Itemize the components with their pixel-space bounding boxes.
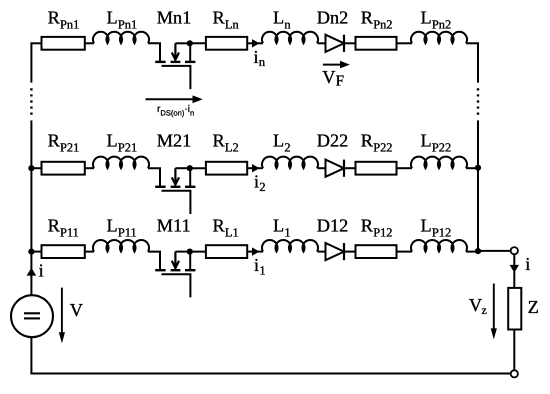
wire RPn1 to LPn1: [85, 42, 94, 44]
svg-text:2: 2: [284, 140, 290, 154]
resistor RP12: [356, 245, 397, 258]
svg-text:L: L: [273, 216, 284, 236]
current arrow in: [252, 39, 260, 47]
node right rail row 2 junction: [475, 165, 481, 171]
svg-text:L: L: [421, 8, 432, 28]
wire RP21 to LP21: [85, 167, 94, 169]
impedance Z: [508, 288, 521, 330]
wire LP22 to right rail: [466, 167, 479, 169]
svg-text:i: i: [39, 260, 44, 280]
node drain/source junction of Mn1: [187, 40, 193, 46]
wire L2 to D22: [318, 167, 326, 169]
wire row n: rail to RPn1: [31, 42, 41, 44]
label LP11: [107, 216, 137, 240]
svg-text:i: i: [254, 255, 259, 275]
label in: [254, 47, 266, 69]
label LP12: [421, 216, 452, 240]
resistor RP22: [356, 162, 397, 175]
svg-text:L2: L2: [225, 140, 239, 154]
svg-text:i: i: [254, 47, 259, 67]
svg-text:L: L: [107, 216, 118, 236]
inductor L1: [262, 240, 318, 252]
svg-text:i: i: [254, 171, 259, 191]
resistor RL2: [206, 162, 247, 175]
resistor RLn: [206, 37, 247, 50]
svg-text:n: n: [284, 17, 290, 31]
wire M11 to RL1: [190, 251, 206, 253]
label RL2: [213, 131, 239, 155]
wire M21 to RL2: [190, 167, 206, 169]
wire LP12 to right rail: [466, 251, 479, 253]
current arrow i2: [252, 164, 260, 172]
wire RL2 to L2 with current arrow: [247, 167, 263, 169]
wire RLn to Ln with current arrow: [247, 42, 263, 44]
label Ln: [273, 8, 291, 32]
label RPn1: [48, 8, 80, 32]
svg-text:R: R: [213, 8, 226, 28]
svg-text:P11: P11: [60, 225, 79, 239]
arrow VZ (load voltage, pointing down): [491, 284, 497, 340]
inductor LPn2: [411, 32, 467, 44]
wire Dn2 to RPn2: [344, 42, 356, 44]
label LP22: [421, 131, 452, 155]
wire terminal to load Z: [513, 254, 515, 288]
arrow VF (diode forward voltage): [323, 61, 350, 69]
wire RP12 to LP12: [397, 251, 413, 253]
terminal output top: [511, 247, 518, 254]
wire RPn2 to LPn2: [397, 42, 413, 44]
svg-text:i: i: [525, 254, 530, 274]
inductor LP12: [411, 240, 467, 252]
svg-text:L: L: [273, 8, 284, 28]
label i2: [254, 171, 266, 193]
svg-text:n: n: [259, 55, 265, 69]
wire D12 to RP12: [344, 251, 356, 253]
wire right rail upper segment: [477, 42, 479, 82]
svg-text:Z: Z: [528, 297, 539, 317]
svg-text:L: L: [107, 8, 118, 28]
inductor L2: [262, 157, 318, 169]
wire left rail upper segment: [30, 42, 32, 82]
label LPn2: [421, 8, 452, 32]
svg-text:P22: P22: [432, 140, 451, 154]
svg-text:P12: P12: [432, 225, 451, 239]
svg-text:Pn1: Pn1: [60, 17, 79, 31]
svg-text:L: L: [421, 131, 432, 151]
diode D12: [326, 243, 345, 260]
wire bottom return: [31, 337, 510, 374]
svg-text:L: L: [273, 131, 284, 151]
wire Mn1 to RLn: [190, 42, 206, 44]
svg-text:R: R: [48, 216, 61, 236]
transistor M11: [148, 252, 195, 298]
current arrow i (source branch, pointing up): [27, 268, 37, 276]
svg-text:Dn2: Dn2: [317, 8, 348, 28]
wire RL1 to L1 with current arrow: [247, 251, 263, 253]
svg-text:L1: L1: [225, 225, 239, 239]
wire right rail dotted continuation: [477, 88, 479, 115]
svg-text:R: R: [361, 8, 374, 28]
svg-text:P22: P22: [373, 140, 392, 154]
wire load Z to bottom terminal: [513, 330, 515, 371]
svg-text:V: V: [70, 300, 83, 320]
svg-text:L: L: [107, 131, 118, 151]
wire left rail lower segment: [30, 120, 32, 295]
svg-text:z: z: [482, 303, 487, 317]
label RP21: [48, 131, 80, 155]
wire D22 to RP22: [344, 167, 356, 169]
svg-text:D22: D22: [317, 131, 348, 151]
arrow V (source voltage, pointing down): [59, 288, 65, 344]
label L2: [273, 131, 291, 155]
voltage source V (DC symbol): [11, 295, 53, 337]
wire LPn2 to right rail: [466, 42, 479, 44]
svg-text:R: R: [48, 8, 61, 28]
transistor Mn1: [148, 43, 195, 89]
svg-text:P21: P21: [118, 140, 137, 154]
inductor LP11: [93, 240, 149, 252]
svg-text:V: V: [469, 295, 482, 315]
svg-text:F: F: [336, 73, 344, 90]
svg-text:L: L: [421, 216, 432, 236]
resistor RPn1: [42, 37, 85, 50]
inductor LPn1: [93, 32, 149, 44]
wire RP11 to LP11: [85, 251, 94, 253]
label VF: [322, 67, 344, 90]
label LPn1: [107, 8, 138, 32]
inductor LP21: [93, 157, 149, 169]
label RLn: [213, 8, 239, 32]
svg-text:1: 1: [259, 263, 265, 277]
label RP22: [361, 131, 393, 155]
node right rail row 1 junction: [475, 248, 481, 254]
resistor RP11: [42, 245, 85, 258]
svg-text:P12: P12: [373, 225, 392, 239]
wire Ln to Dn2: [318, 42, 326, 44]
arrow rDS(on)·in voltage drop: [146, 95, 203, 103]
wire row 1: rail to RP11: [31, 251, 41, 253]
wire RP22 to LP22: [397, 167, 413, 169]
resistor RPn2: [356, 37, 397, 50]
resistor RL1: [206, 245, 247, 258]
svg-text:P21: P21: [60, 140, 79, 154]
svg-text:Pn1: Pn1: [118, 17, 137, 31]
current arrow i1: [252, 247, 260, 255]
label RP12: [361, 216, 393, 240]
inductor LP22: [411, 157, 467, 169]
label L1: [273, 216, 291, 240]
svg-text:1: 1: [284, 225, 290, 239]
current arrow i (load, pointing down): [510, 265, 519, 273]
label RL1: [213, 216, 239, 240]
svg-text:2: 2: [259, 180, 265, 194]
wire row 1 junction to output terminal: [478, 250, 511, 252]
node left rail row 1 junction: [28, 249, 34, 255]
svg-text:P11: P11: [118, 225, 137, 239]
node drain/source junction of M11: [187, 249, 193, 255]
label RP11: [48, 216, 79, 240]
wire left rail dotted continuation: [30, 88, 32, 115]
svg-text:Pn2: Pn2: [432, 17, 451, 31]
svg-text:Ln: Ln: [225, 17, 239, 31]
svg-text:Mn1: Mn1: [157, 8, 192, 28]
resistor RP21: [42, 162, 85, 175]
svg-text:M21: M21: [157, 131, 192, 151]
wire row 2: rail to RP21: [31, 167, 41, 169]
node drain/source junction of M21: [187, 165, 193, 171]
svg-text:R: R: [213, 131, 226, 151]
wire L1 to D12: [318, 251, 326, 253]
svg-text:R: R: [361, 131, 374, 151]
label i1: [254, 255, 266, 277]
transistor M21: [148, 168, 195, 214]
svg-text:R: R: [361, 216, 374, 236]
diode Dn2: [326, 35, 345, 52]
label RPn2: [361, 8, 393, 32]
inductor Ln: [262, 32, 318, 44]
svg-text:D12: D12: [317, 216, 348, 236]
label VZ: [469, 295, 487, 317]
svg-text:R: R: [213, 216, 226, 236]
svg-text:V: V: [322, 67, 335, 87]
svg-text:R: R: [48, 131, 61, 151]
wire right rail lower segment: [477, 120, 479, 251]
svg-text:Pn2: Pn2: [373, 17, 392, 31]
terminal output bottom: [511, 370, 518, 377]
svg-text:M11: M11: [157, 216, 191, 236]
label LP21: [107, 131, 138, 155]
diode D22: [326, 160, 345, 177]
node left rail row 2 junction: [28, 165, 34, 171]
